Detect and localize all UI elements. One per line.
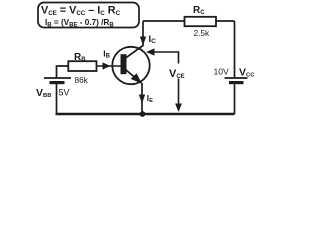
battery VBB bbox=[44, 78, 71, 83]
svg-text:5V: 5V bbox=[59, 87, 70, 97]
resistor RC bbox=[185, 17, 217, 26]
svg-text:VBB: VBB bbox=[36, 87, 51, 99]
formula box bbox=[38, 3, 139, 29]
svg-text:VCC: VCC bbox=[239, 66, 255, 78]
junction dot emitter-rail bbox=[140, 111, 146, 117]
wire collector vertical with IC arrow bbox=[142, 21, 144, 46]
wire base with IB arrow bbox=[97, 65, 122, 67]
resistor RB bbox=[68, 61, 96, 71]
wire right rail upper bbox=[234, 21, 236, 77]
wire left rail lower bbox=[56, 84, 58, 114]
transistor Q1 bbox=[112, 46, 149, 85]
svg-text:RB: RB bbox=[74, 52, 86, 63]
label VCE bbox=[168, 64, 191, 81]
svg-text:86k: 86k bbox=[75, 75, 89, 85]
VCE measurement arrow bbox=[146, 48, 182, 112]
wire bottom rail bbox=[56, 113, 235, 115]
svg-text:10V: 10V bbox=[214, 67, 230, 77]
wire VBB to RB bbox=[57, 66, 70, 77]
svg-text:RC: RC bbox=[193, 5, 205, 16]
wire top rail bbox=[143, 20, 235, 22]
svg-text:2.5k: 2.5k bbox=[194, 28, 211, 38]
svg-text:IE: IE bbox=[147, 94, 153, 104]
wire emitter vertical with IE arrow bbox=[141, 83, 143, 113]
svg-text:IB = (VBE - 0.7) /RB: IB = (VBE - 0.7) /RB bbox=[45, 18, 114, 28]
battery VCC bbox=[225, 78, 248, 83]
wire right rail lower bbox=[234, 84, 236, 114]
svg-text:IC: IC bbox=[149, 34, 157, 45]
svg-text:IB: IB bbox=[103, 48, 110, 59]
